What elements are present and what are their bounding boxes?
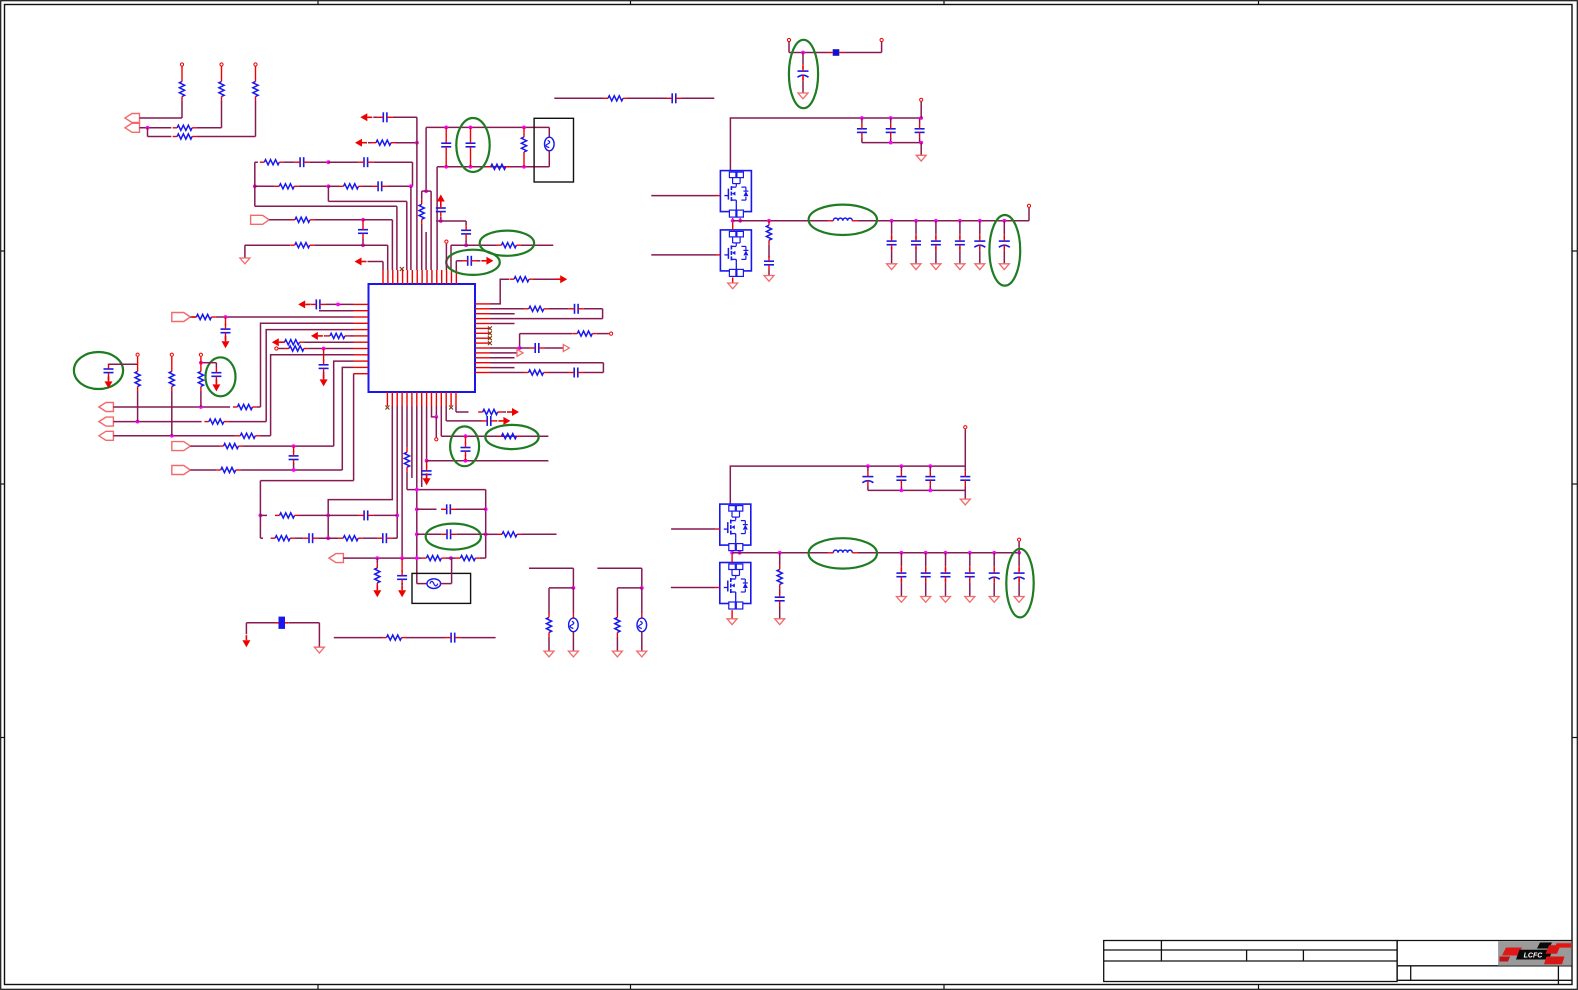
svg-text:LCFC: LCFC <box>1524 953 1544 960</box>
